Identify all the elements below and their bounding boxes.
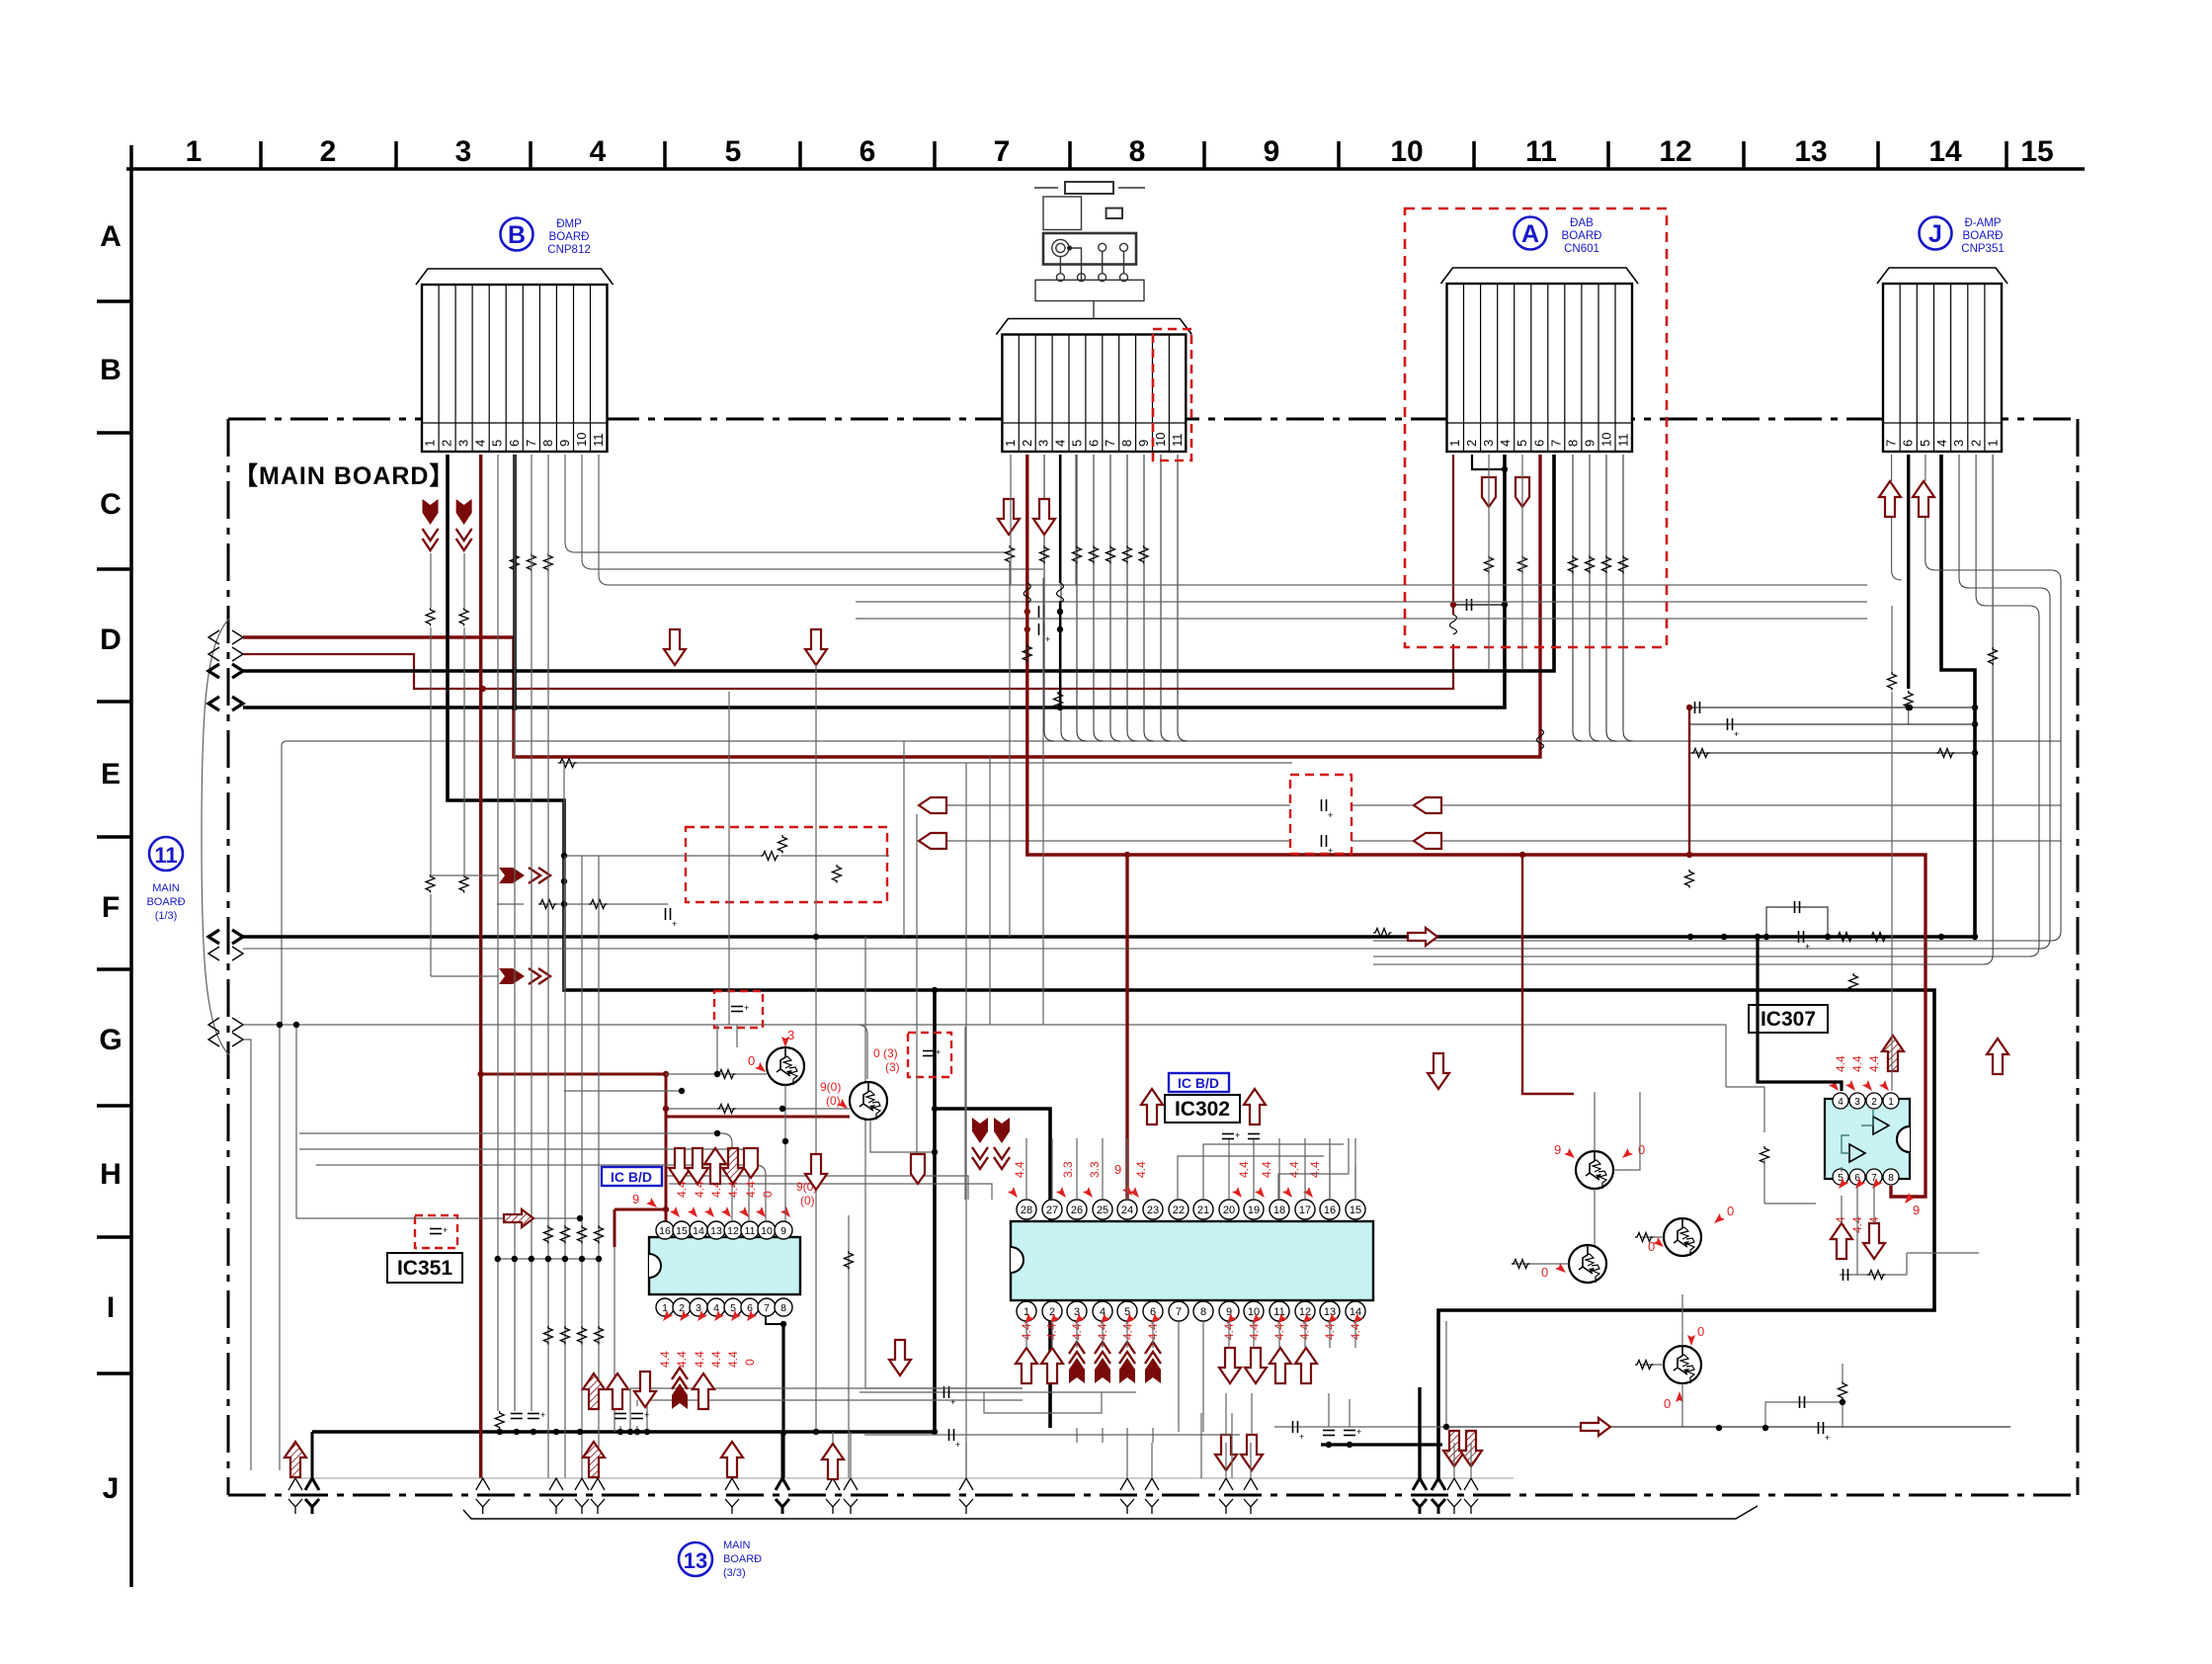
svg-text:A: A: [1521, 220, 1539, 248]
svg-text:8: 8: [1565, 440, 1580, 447]
pentagon down mid: [911, 1154, 925, 1184]
connector A CN601: [1441, 268, 1639, 452]
svg-text:14: 14: [693, 1225, 704, 1237]
svg-text:4.4: 4.4: [744, 1181, 758, 1198]
svg-text:H: H: [100, 1158, 122, 1191]
svg-text:3: 3: [787, 1028, 794, 1042]
svg-text:4.4: 4.4: [693, 1351, 706, 1368]
connector B CNP812: [416, 269, 614, 452]
wire F-row thick bus: [243, 935, 1975, 938]
svg-text:+: +: [955, 1440, 960, 1450]
svg-text:4.4: 4.4: [709, 1351, 723, 1368]
svg-text:1: 1: [1447, 440, 1462, 447]
svg-text:4: 4: [1498, 440, 1513, 447]
svg-text:3: 3: [456, 440, 471, 447]
ground symbols bottom: [288, 1478, 1478, 1514]
wire dark red branch IC302: [1125, 855, 1128, 1199]
label voltages IC302 bottom: [1020, 1313, 1363, 1340]
transistor Q6: [1664, 1346, 1701, 1383]
svg-text:4: 4: [1934, 440, 1949, 447]
svg-text:4.4: 4.4: [675, 1351, 689, 1368]
optical jack assembly: [1034, 182, 1145, 318]
svg-text:+: +: [1328, 810, 1333, 820]
svg-text:+: +: [936, 1047, 941, 1057]
svg-text:12: 12: [727, 1225, 739, 1237]
wire G-row thin buses: [243, 1024, 1726, 1026]
svg-text:8: 8: [1129, 135, 1146, 168]
capacitor on A pin4 net: [1453, 604, 1505, 606]
capacitors below central connector: [1023, 601, 1063, 710]
svg-text:10: 10: [1390, 135, 1423, 168]
svg-text:B: B: [100, 354, 122, 386]
svg-text:+: +: [1356, 1427, 1361, 1437]
arrow down pair below B pins: [423, 499, 439, 525]
wire thick net bottom left: [312, 990, 1050, 1432]
svg-text:20: 20: [1223, 1205, 1235, 1216]
svg-text:IC B/D: IC B/D: [611, 1169, 652, 1185]
arrow hatched right IC351: [504, 1209, 533, 1227]
wire hooks right margin: [243, 455, 2061, 964]
wire dark red D-row bus 1: [243, 455, 1540, 757]
svg-text:6: 6: [1901, 440, 1916, 447]
svg-text:+: +: [1235, 1130, 1240, 1140]
svg-text:4.4: 4.4: [675, 1181, 689, 1198]
svg-text:9: 9: [632, 1192, 639, 1206]
svg-text:7: 7: [1884, 440, 1899, 447]
wire dark red branch Q3: [1522, 855, 1574, 1094]
svg-text:C: C: [100, 488, 122, 521]
label voltages IC351: [632, 1180, 817, 1368]
wire J pin stubs: [1892, 455, 1925, 580]
svg-text:9: 9: [780, 1225, 786, 1237]
arrows above grounds: [285, 1442, 306, 1477]
svg-text:+: +: [1045, 634, 1050, 644]
svg-text:13: 13: [684, 1548, 707, 1573]
svg-text:BOARĐ: BOARĐ: [1963, 230, 2004, 242]
capacitors bottom left group: [495, 1388, 649, 1435]
resistors below B connector: [426, 553, 552, 626]
svg-text:5: 5: [1918, 440, 1932, 447]
transistor Q3: [1576, 1151, 1613, 1189]
svg-text:1: 1: [1986, 440, 2001, 447]
svg-text:6: 6: [1531, 440, 1546, 447]
wire thick stub 1437: [1418, 1387, 1421, 1478]
svg-text:5: 5: [490, 440, 505, 447]
svg-text:【MAIN BOARD】: 【MAIN BOARD】: [233, 462, 455, 490]
svg-text:BOARĐ: BOARĐ: [549, 231, 590, 243]
svg-text:4.4: 4.4: [1260, 1161, 1273, 1178]
label 13 main board: [679, 1542, 712, 1576]
svg-text:25: 25: [1097, 1205, 1108, 1216]
transistor Q4: [1569, 1245, 1606, 1283]
svg-text:3: 3: [1854, 1097, 1860, 1108]
arrow pentagons below A conn: [1482, 477, 1496, 507]
arrows below IC307: [1831, 1223, 1852, 1259]
svg-text:A: A: [100, 220, 122, 253]
svg-text:CNP351: CNP351: [1961, 243, 2004, 255]
svg-text:13: 13: [710, 1225, 722, 1237]
svg-text:13: 13: [1794, 135, 1827, 168]
arrow right on F bus: [1408, 928, 1437, 946]
wire E-row arrow lines: [944, 804, 2061, 806]
svg-text:ĐAB: ĐAB: [1570, 217, 1594, 229]
label IC351: [387, 1253, 462, 1283]
wire dark red right vertical: [1688, 707, 1690, 855]
svg-text:22: 22: [1173, 1205, 1185, 1216]
svg-text:+: +: [443, 1225, 448, 1235]
svg-text:(0): (0): [800, 1194, 815, 1207]
svg-text:9: 9: [1554, 1142, 1561, 1157]
arrows flanking IC302 label: [1141, 1089, 1163, 1124]
svg-text:+: +: [644, 1410, 649, 1420]
label IC307: [1749, 1005, 1828, 1033]
connector CN central: [996, 319, 1191, 453]
wire IC302 pin stubs: [966, 1025, 1446, 1478]
svg-text:0: 0: [748, 1053, 755, 1068]
svg-text:16: 16: [659, 1225, 671, 1237]
svg-text:G: G: [99, 1024, 122, 1056]
svg-text:8: 8: [780, 1302, 786, 1314]
svg-text:2: 2: [1968, 440, 1983, 447]
svg-text:IC302: IC302: [1175, 1098, 1230, 1121]
wire right grey verticals: [865, 455, 1993, 1388]
svg-text:IC307: IC307: [1761, 1008, 1816, 1031]
svg-text:10: 10: [1599, 433, 1614, 447]
svg-text:0: 0: [1638, 1142, 1645, 1157]
svg-text:1: 1: [1003, 440, 1018, 447]
svg-text:4: 4: [1053, 440, 1068, 447]
svg-text:6: 6: [747, 1302, 753, 1314]
svg-text:3: 3: [1036, 440, 1051, 447]
svg-text:2: 2: [320, 135, 337, 168]
svg-text:IC B/D: IC B/D: [1178, 1075, 1219, 1091]
arrow right bottom: [1581, 1418, 1610, 1436]
svg-text:11: 11: [745, 1225, 756, 1237]
resistors inside A dashed box: [1485, 555, 1628, 574]
svg-text:(3): (3): [885, 1060, 900, 1074]
arrows above IC351: [669, 1148, 691, 1184]
svg-text:11: 11: [1616, 434, 1631, 448]
svg-text:9: 9: [1264, 135, 1280, 168]
svg-text:0: 0: [1541, 1265, 1548, 1280]
label J board: [1920, 217, 1952, 250]
svg-text:CNP812: CNP812: [547, 244, 590, 256]
svg-text:4: 4: [590, 135, 607, 168]
svg-text:BOARĐ: BOARĐ: [146, 896, 185, 908]
svg-text:1: 1: [186, 135, 203, 168]
svg-text:IC351: IC351: [397, 1257, 452, 1280]
svg-text:9: 9: [1582, 440, 1597, 447]
svg-text:11: 11: [1273, 1306, 1284, 1318]
label IC B/D 351: [602, 1167, 662, 1186]
svg-text:+: +: [744, 1003, 749, 1013]
svg-text:14: 14: [1350, 1306, 1361, 1318]
wire thin row 772: [560, 762, 1292, 764]
svg-text:10: 10: [1153, 433, 1168, 447]
svg-text:4.4: 4.4: [1287, 1161, 1301, 1178]
red dashed box G small: [714, 991, 763, 1028]
svg-text:4.4: 4.4: [1237, 1161, 1251, 1178]
svg-text:1: 1: [1888, 1097, 1894, 1108]
svg-text:2: 2: [1871, 1097, 1877, 1108]
svg-text:CN601: CN601: [1564, 243, 1599, 255]
svg-text:BOARĐ: BOARĐ: [1562, 230, 1602, 242]
wire right mid horizontals: [1446, 707, 2010, 1427]
red dashed box H small: [908, 1033, 951, 1077]
svg-text:3.3: 3.3: [1088, 1161, 1102, 1178]
svg-text:2: 2: [440, 440, 454, 447]
svg-text:23: 23: [1147, 1205, 1159, 1216]
arrows right column: [1882, 1036, 1904, 1071]
svg-text:7: 7: [524, 440, 538, 447]
svg-text:4: 4: [473, 440, 488, 447]
red dashed box pins 10-11: [1153, 329, 1191, 460]
svg-text:26: 26: [1071, 1205, 1083, 1216]
inductor on A pin6 net: [1537, 729, 1544, 749]
svg-text:5: 5: [725, 135, 742, 168]
svg-text:8: 8: [1888, 1173, 1894, 1184]
svg-text:7: 7: [1176, 1306, 1182, 1318]
svg-text:5: 5: [1515, 440, 1529, 447]
label IC B/D 302: [1169, 1073, 1229, 1092]
svg-text:(3/3): (3/3): [723, 1567, 746, 1579]
svg-text:4.4: 4.4: [726, 1351, 740, 1368]
svg-text:12: 12: [1299, 1306, 1311, 1318]
border ruler frame: [97, 135, 2085, 1587]
op-amp IC302: [1011, 1200, 1373, 1321]
svg-text:+: +: [1299, 1432, 1304, 1442]
svg-text:11: 11: [1170, 434, 1185, 448]
label B board: [501, 218, 533, 251]
red dashed box A board: [1405, 208, 1667, 647]
svg-text:4.4: 4.4: [1834, 1055, 1847, 1072]
svg-text:ĐMP: ĐMP: [556, 218, 582, 230]
svg-text:+: +: [1805, 942, 1810, 952]
arrow down D row: [664, 629, 686, 665]
wire dark red IC351 supply: [481, 1074, 850, 1247]
caps bottom middle: [1274, 1426, 1446, 1428]
svg-text:J: J: [103, 1472, 120, 1505]
red dashed box left cap: [415, 1215, 457, 1248]
svg-text:11: 11: [1525, 135, 1557, 168]
svg-text:9: 9: [1114, 1162, 1121, 1177]
svg-text:+: +: [1328, 846, 1333, 856]
wire dark red central pin2 power: [1027, 455, 1925, 1197]
op-amp IC307: [1825, 1093, 1910, 1185]
svg-text:+: +: [950, 1397, 955, 1407]
arrow left E row: [919, 797, 946, 813]
svg-text:27: 27: [1046, 1205, 1058, 1216]
svg-text:4.4: 4.4: [693, 1181, 706, 1198]
label 11 main board: [149, 837, 183, 871]
wire black bus row 713: [243, 455, 1505, 707]
svg-text:13: 13: [1324, 1306, 1336, 1318]
chevrons above IC302: [972, 1118, 988, 1143]
wire IC351 pin columns: [280, 455, 1023, 1478]
arrow chevron right F rows: [499, 868, 525, 883]
wire J pin6 down: [1907, 455, 1910, 689]
inductor L601: [1450, 615, 1457, 634]
wire A pins 2,3,5: [1472, 455, 1505, 469]
svg-text:Đ-AMP: Đ-AMP: [1964, 217, 2001, 229]
svg-text:I: I: [107, 1291, 115, 1324]
svg-text:(0): (0): [826, 1094, 841, 1108]
svg-text:F: F: [102, 891, 120, 924]
svg-text:(1/3): (1/3): [155, 910, 178, 922]
svg-text:+: +: [540, 1410, 545, 1420]
svg-text:3: 3: [1481, 440, 1496, 447]
svg-text:15: 15: [1350, 1205, 1361, 1216]
svg-text:3.3: 3.3: [1061, 1161, 1075, 1178]
svg-text:5: 5: [1070, 440, 1085, 447]
transistor Q1: [767, 1047, 804, 1085]
svg-text:B: B: [508, 221, 526, 249]
svg-text:7: 7: [1548, 440, 1563, 447]
svg-text:10: 10: [574, 433, 589, 447]
svg-text:10: 10: [1248, 1306, 1260, 1318]
arrow down mid column: [805, 1154, 827, 1190]
svg-text:0 (3): 0 (3): [873, 1046, 898, 1060]
svg-text:12: 12: [1659, 135, 1691, 168]
svg-text:BOARĐ: BOARĐ: [723, 1553, 762, 1565]
label IC302: [1165, 1095, 1240, 1123]
svg-text:11: 11: [591, 434, 606, 448]
svg-text:4.4: 4.4: [1134, 1161, 1148, 1178]
svg-text:0: 0: [761, 1191, 775, 1198]
label voltages IC307: [1829, 1055, 1920, 1233]
svg-text:8: 8: [540, 440, 555, 447]
wire thick right column: [1941, 455, 1975, 937]
svg-text:4.4: 4.4: [1013, 1161, 1026, 1178]
svg-text:E: E: [101, 758, 121, 790]
label A board: [1515, 217, 1547, 250]
svg-text:9: 9: [1913, 1203, 1920, 1217]
svg-text:4.4: 4.4: [658, 1351, 672, 1368]
svg-text:J: J: [1928, 220, 1942, 248]
wire IC351 pin8 ground drop: [781, 1321, 784, 1478]
svg-text:9: 9: [1136, 440, 1151, 447]
resistors D-row verticals: [426, 627, 468, 976]
capacitor bridge bottom right: [1716, 1364, 1847, 1443]
op-amp IC351: [649, 1221, 800, 1316]
svg-text:3: 3: [696, 1302, 701, 1314]
svg-text:9(0): 9(0): [820, 1080, 841, 1094]
arrow down pair below central conn: [998, 499, 1020, 535]
wire dark red B pin4 vertical: [479, 455, 482, 1478]
svg-text:17: 17: [1299, 1205, 1311, 1216]
wire drops to ground: [295, 1432, 1471, 1478]
svg-text:4.4: 4.4: [1867, 1055, 1881, 1072]
svg-text:16: 16: [1324, 1205, 1336, 1216]
node left board-link chevrons: [202, 619, 243, 1055]
wire Q2 base/emitter: [666, 1109, 935, 1152]
svg-text:21: 21: [1197, 1205, 1209, 1216]
resistors right columns: [1373, 647, 1998, 1165]
arrows below IC351: [583, 1373, 605, 1409]
main board border: [228, 419, 2078, 1495]
svg-text:4.4: 4.4: [1308, 1161, 1322, 1178]
wire dark red D-row bus 2: [243, 644, 1453, 689]
svg-text:3: 3: [1951, 440, 1966, 447]
arrow up pair below J conn: [1879, 481, 1901, 517]
svg-text:7: 7: [764, 1302, 770, 1314]
svg-text:0: 0: [743, 1359, 757, 1366]
svg-text:+: +: [672, 919, 677, 929]
arrows below IC302: [1016, 1348, 1037, 1383]
wire mid clutter: [431, 455, 1355, 1432]
wire thick bus y1002: [448, 455, 1934, 1478]
svg-text:4.4: 4.4: [1850, 1055, 1864, 1072]
resistors below central connector: [1006, 545, 1149, 564]
wire B pin6 down: [513, 455, 517, 707]
svg-text:6: 6: [507, 440, 522, 447]
svg-text:11: 11: [154, 843, 177, 868]
svg-text:3: 3: [455, 135, 472, 168]
svg-text:0: 0: [1697, 1324, 1704, 1339]
capacitor bridge on F bus: [1766, 907, 1828, 937]
wire Q1 base/emitter: [666, 1074, 785, 1221]
svg-text:10: 10: [761, 1225, 773, 1237]
svg-text:14: 14: [1928, 135, 1962, 168]
svg-text:8: 8: [1200, 1306, 1206, 1318]
svg-text:+: +: [1734, 729, 1739, 739]
svg-text:2: 2: [1464, 440, 1479, 447]
svg-text:2: 2: [1020, 440, 1034, 447]
svg-text:9: 9: [557, 440, 572, 447]
red dashed box E mid: [1290, 775, 1352, 854]
svg-text:4: 4: [1838, 1097, 1843, 1108]
wire IC351 left mesh: [299, 1133, 992, 1221]
svg-text:7: 7: [1103, 440, 1117, 447]
svg-text:0: 0: [1664, 1396, 1671, 1411]
svg-text:7: 7: [994, 135, 1011, 168]
svg-text:19: 19: [1248, 1205, 1260, 1216]
svg-text:+: +: [1825, 1433, 1830, 1443]
transistor Q2: [850, 1082, 887, 1120]
svg-text:D: D: [100, 624, 122, 656]
svg-text:0: 0: [1727, 1204, 1734, 1218]
svg-text:6: 6: [1086, 440, 1101, 447]
label voltages IC302 top: [1008, 1161, 1322, 1201]
svg-text:28: 28: [1021, 1205, 1032, 1216]
resistors in F box: [761, 852, 779, 861]
connector J CNP351: [1877, 268, 2007, 452]
svg-text:8: 8: [1119, 440, 1134, 447]
ground rail thin: [296, 1477, 1514, 1479]
svg-text:15: 15: [2020, 135, 2053, 168]
svg-text:18: 18: [1273, 1205, 1285, 1216]
transistor Q5: [1664, 1218, 1701, 1256]
wire grey midline rows: [565, 455, 1010, 552]
svg-text:MAIN: MAIN: [723, 1539, 751, 1551]
svg-text:15: 15: [676, 1225, 688, 1237]
inductors on central pins 2,4: [1024, 583, 1030, 603]
bottom bracket: [463, 1506, 1758, 1519]
wire black bus row 679: [243, 455, 1554, 671]
wire thin bus row 748 with bus-entry curves: [287, 740, 2061, 742]
svg-text:MAIN: MAIN: [152, 882, 180, 894]
wire transistor links: [1512, 1092, 1682, 1427]
wire IC307 black feed: [1758, 937, 1842, 1091]
red dashed box F: [686, 827, 887, 902]
svg-text:24: 24: [1121, 1205, 1133, 1216]
svg-text:6: 6: [860, 135, 876, 168]
svg-text:1: 1: [423, 440, 438, 447]
